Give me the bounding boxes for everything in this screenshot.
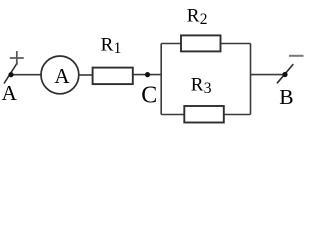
terminal A dot	[8, 72, 13, 77]
right vertical wire of parallel section	[250, 44, 252, 115]
svg-text:B: B	[279, 85, 293, 109]
svg-text:C: C	[141, 83, 157, 109]
terminal A probe slash	[4, 63, 18, 84]
svg-text:R3: R3	[191, 74, 212, 97]
resistor R3 box	[184, 106, 224, 123]
wire from right vertical to terminal B	[251, 74, 286, 76]
ammeter A circle	[41, 56, 79, 94]
left vertical wire of parallel section	[160, 44, 162, 115]
wire from terminal A to ammeter	[11, 74, 42, 76]
top branch wire	[161, 43, 250, 45]
wire from ammeter to resistor R1	[79, 74, 93, 76]
resistor R1 box	[93, 68, 133, 85]
plus sign at terminal A	[10, 57, 24, 59]
svg-text:A: A	[2, 81, 18, 105]
svg-text:R1: R1	[101, 34, 122, 57]
wire from R1 through node C to left vertical	[133, 74, 161, 76]
bottom branch wire	[161, 114, 250, 116]
svg-text:R2: R2	[187, 5, 208, 28]
resistor R2 box	[181, 35, 221, 51]
minus sign at terminal B	[289, 55, 304, 57]
node C dot	[145, 72, 150, 77]
svg-text:A: A	[54, 64, 70, 88]
terminal B dot	[282, 72, 287, 77]
terminal B probe slash	[277, 64, 293, 83]
